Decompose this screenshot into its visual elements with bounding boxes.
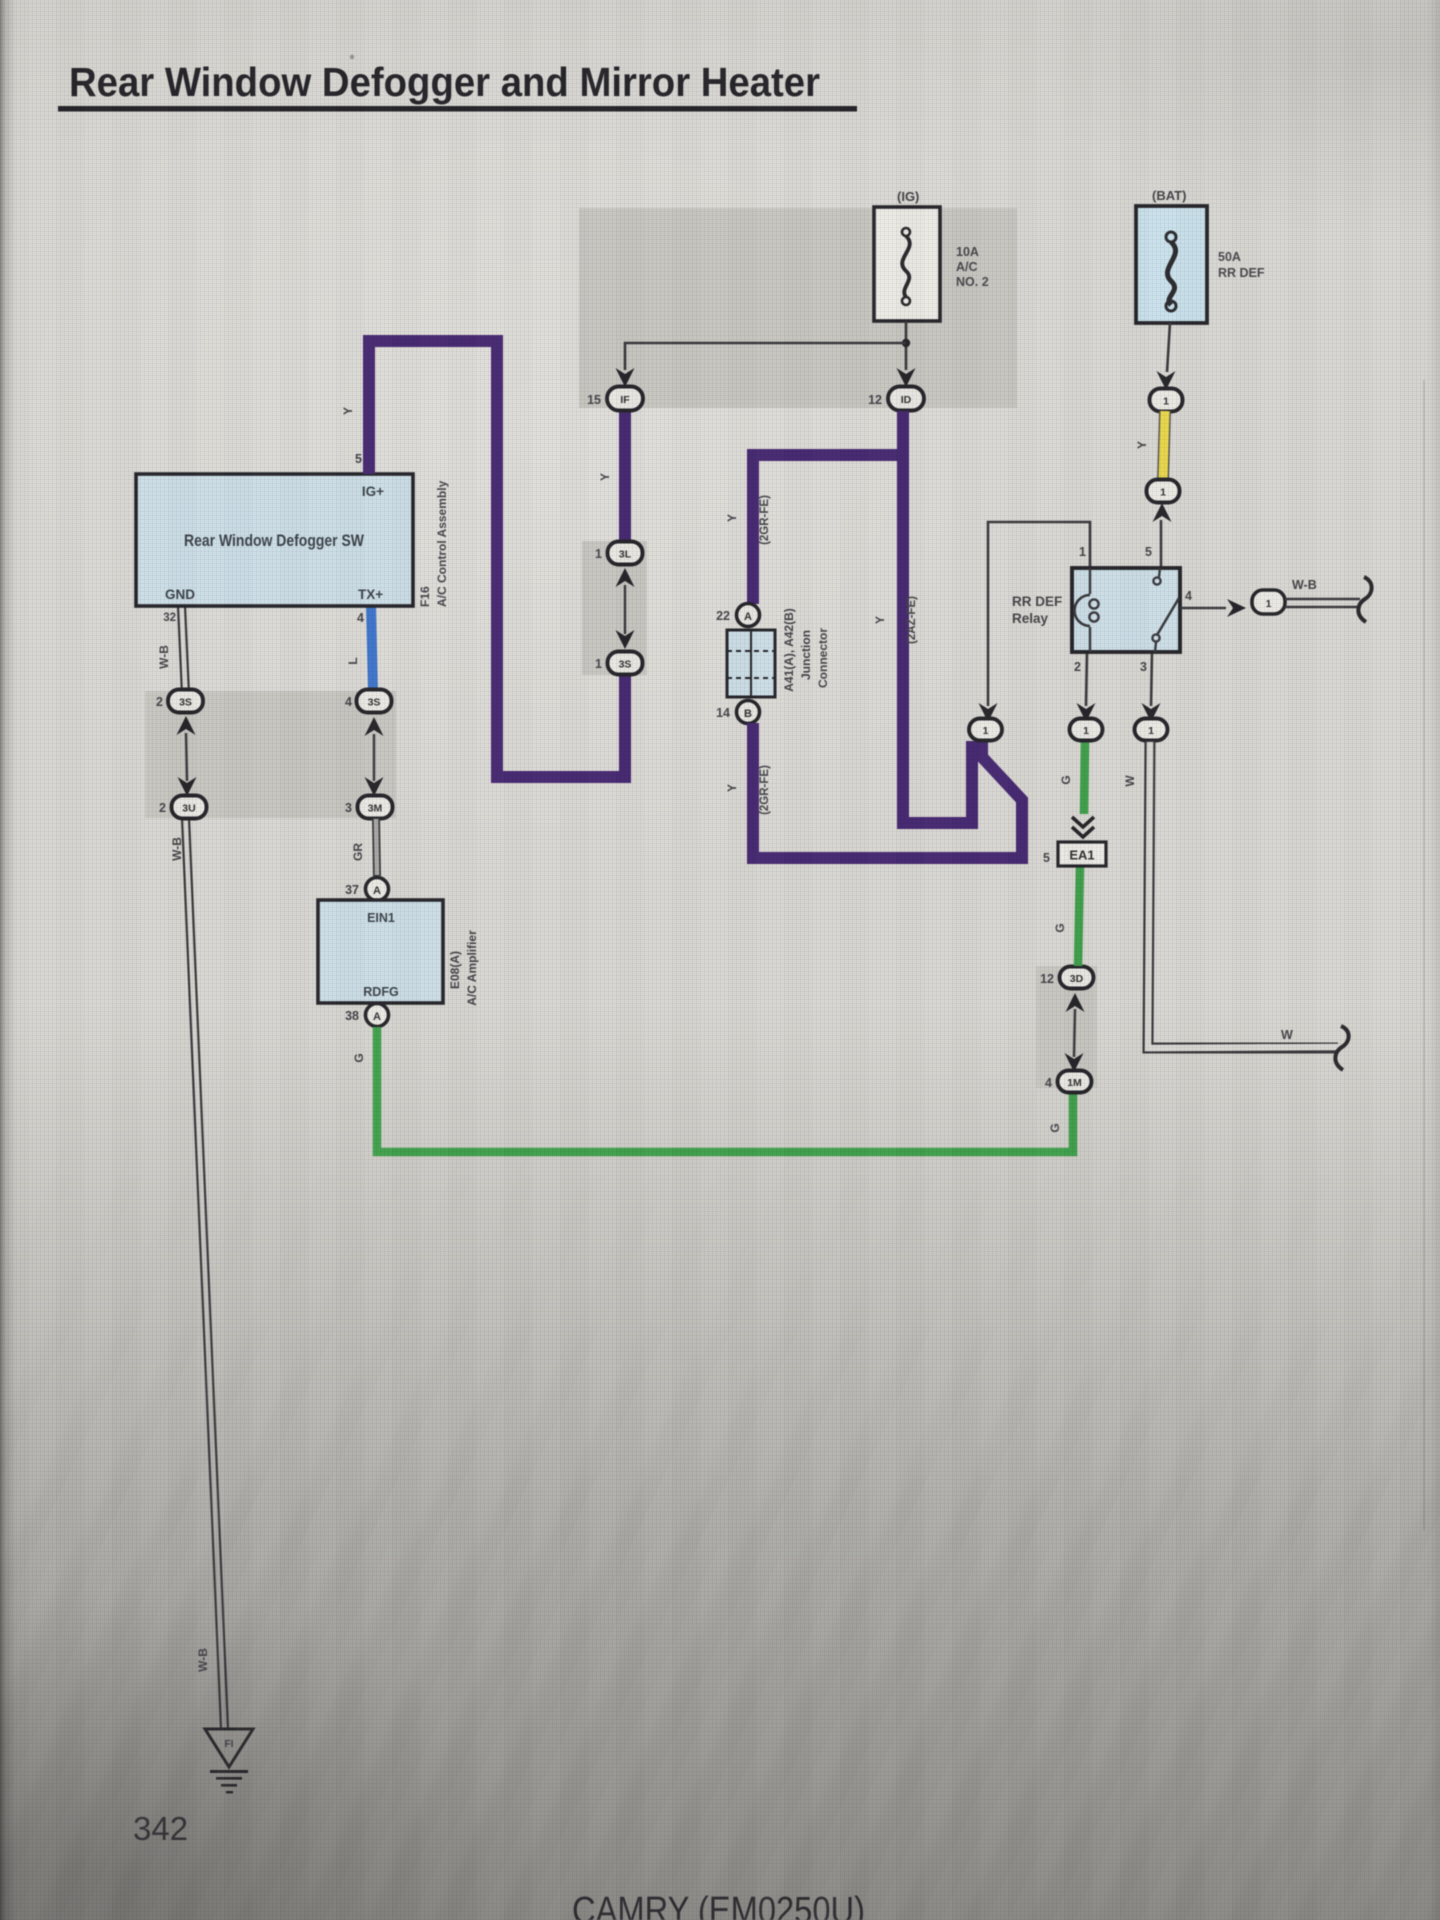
purple wire 15IF down to 3L [619,411,631,543]
svg-text:B: B [744,708,752,720]
connector 1 3S [608,652,643,675]
svg-text:Relay: Relay [1012,611,1049,626]
svg-text:1: 1 [983,725,989,737]
svg-text:Y: Y [1135,441,1149,449]
svg-text:W: W [1281,1028,1293,1042]
svg-text:(2AZ-FE): (2AZ-FE) [906,596,918,644]
svg-text:12: 12 [1040,972,1054,986]
svg-text:(2GR-FE): (2GR-FE) [759,765,771,815]
wire G green relay pin2 to EA1 [1084,741,1085,814]
svg-text:W: W [1123,775,1137,787]
wire W-B long run to ground [182,818,228,1729]
wire G green 3D up to EA1 [1078,866,1080,966]
wire GR [376,818,377,876]
svg-text:A: A [373,1011,381,1023]
svg-text:5: 5 [355,452,362,466]
svg-text:TX+: TX+ [358,587,383,602]
connector 22 A [737,604,760,627]
svg-text:A/C Control Assembly: A/C Control Assembly [435,480,449,607]
wire G green from amp to 1M [377,1027,1073,1152]
svg-text:(BAT): (BAT) [1152,188,1186,203]
svg-text:EA1: EA1 [1069,848,1094,863]
svg-text:(IG): (IG) [897,189,919,204]
svg-text:4: 4 [357,611,364,625]
connector 1 (pin4) [1252,590,1285,614]
connector 1 (relay pin3) [1142,703,1161,722]
shaded connector region 3D/1M [1036,966,1097,1088]
connector 15 IF [616,368,635,387]
svg-text:G: G [1059,775,1073,784]
shaded connector region left 3S/3U and 3S/3M [145,691,396,818]
svg-text:NO. 2: NO. 2 [956,275,989,289]
wire W-B from defogger SW GND down [178,606,189,694]
svg-text:10A: 10A [956,245,979,259]
purple wire from 14B to relay feed [753,723,1022,858]
connector 14 B [737,701,760,724]
off-page hook W [1335,1026,1348,1070]
svg-text:Rear Window Defogger SW: Rear Window Defogger SW [184,531,365,550]
connector 1 (relay pin2) [1077,703,1096,722]
svg-text:Y: Y [598,473,612,481]
connector 1 3L [616,568,635,587]
svg-text:3: 3 [345,801,352,815]
svg-text:1: 1 [595,547,602,561]
svg-text:Connector: Connector [816,628,830,688]
svg-text:A/C: A/C [956,260,978,274]
wire from fuse to branch [905,321,908,370]
svg-text:3L: 3L [619,549,632,561]
shaded harness region behind IG fuse [579,208,1017,408]
svg-text:IF: IF [620,394,630,406]
svg-text:22: 22 [716,609,730,623]
svg-text:Junction: Junction [799,630,813,680]
connector 4 1M [1058,1071,1092,1093]
svg-text:A/C Amplifier: A/C Amplifier [465,930,479,1006]
svg-text:1: 1 [1083,725,1089,737]
svg-text:GR: GR [351,843,365,861]
svg-text:14: 14 [716,706,730,720]
svg-text:342: 342 [133,1810,188,1847]
wire W-B to body ground [1285,598,1360,600]
svg-text:Y: Y [873,616,887,624]
connector 37 A [366,878,389,901]
splice EA1 [1043,842,1106,866]
junction connector A41/A42 [727,630,775,697]
svg-text:W-B: W-B [157,645,171,669]
svg-text:G: G [1048,1123,1062,1132]
svg-text:EIN1: EIN1 [367,911,395,925]
svg-text:A: A [744,611,752,623]
svg-text:1: 1 [1079,545,1086,559]
connector 38 A [366,1004,389,1027]
svg-text:Y: Y [341,407,355,415]
off-page hook W-B [1358,577,1371,622]
svg-text:4: 4 [1045,1076,1052,1090]
svg-text:Y: Y [725,784,739,792]
connector 4 3S [365,717,384,736]
wire Y yellow [1163,411,1165,481]
title [58,59,857,112]
svg-text:IG+: IG+ [362,484,384,499]
svg-text:W-B: W-B [170,837,184,861]
purple wire A/C control IG+ loop to 3S [369,341,625,777]
svg-text:3U: 3U [182,803,195,815]
svg-text:L: L [346,657,360,664]
svg-text:RR DEF: RR DEF [1218,266,1265,280]
svg-text:Rear Window Defogger and Mirro: Rear Window Defogger and Mirror Heater [69,59,820,105]
connector 12 3D [1060,967,1094,989]
wire L blue from TX+ [371,606,373,692]
svg-text:A: A [373,885,381,897]
connector 2 3U [172,796,207,819]
chevron to EA1 [1072,817,1094,837]
wire relay pin4 W-B [1180,607,1226,610]
svg-text:37: 37 [345,883,359,897]
svg-text:RR DEF: RR DEF [1012,594,1062,609]
svg-text:1: 1 [1163,396,1169,408]
svg-text:(2GR-FE): (2GR-FE) [759,495,771,545]
svg-text:G: G [352,1053,366,1062]
svg-text:3S: 3S [619,659,632,671]
svg-text:1: 1 [1160,487,1166,499]
svg-text:A41(A), A42(B): A41(A), A42(B) [782,608,796,692]
svg-text:FI: FI [225,1739,234,1750]
svg-text:4: 4 [345,695,352,709]
connector 2 3S [177,716,196,735]
svg-text:15: 15 [587,393,601,407]
connector 3 3M [358,796,393,819]
ground FI [205,1729,253,1793]
svg-text:3S: 3S [368,697,381,709]
A/C Amplifier box [318,900,443,1003]
svg-text:50A: 50A [1218,250,1241,264]
svg-text:E08(A): E08(A) [448,951,462,989]
Rear Window Defogger SW box [136,474,413,606]
purple wire branch to junction connector (2GR-FE) [753,455,897,604]
svg-text:38: 38 [345,1009,359,1023]
RR DEF relay box [1072,568,1180,652]
svg-text:G: G [1053,923,1067,932]
photo smudge [350,55,354,59]
connector 1 (relay feed) [979,703,998,722]
svg-text:12: 12 [868,393,882,407]
svg-text:3D: 3D [1070,973,1084,985]
svg-text:2: 2 [159,801,166,815]
svg-text:CAMRY (EM0250U): CAMRY (EM0250U) [572,1890,865,1920]
connector 12 ID [897,368,916,387]
svg-text:4: 4 [1185,589,1192,603]
faint page edge right [1423,380,1425,1530]
wire W from relay pin3 [1148,741,1338,1048]
svg-text:ID: ID [901,394,912,406]
svg-text:1: 1 [1148,725,1154,737]
svg-text:W-B: W-B [196,1648,210,1672]
connector 1 (bat) [1157,371,1176,390]
fuse 50A RR DEF [1136,206,1207,323]
connector 1 (to relay 5) [1147,480,1180,503]
svg-text:5: 5 [1145,545,1152,559]
svg-text:W-B: W-B [1292,578,1317,592]
svg-text:2: 2 [1074,660,1081,674]
svg-text:3S: 3S [179,697,192,709]
svg-text:32: 32 [163,612,176,624]
svg-text:1M: 1M [1067,1077,1082,1089]
svg-text:2: 2 [156,695,163,709]
wire fuse to connector [1167,323,1170,372]
svg-text:F16: F16 [418,586,432,607]
junction dot [902,339,910,347]
svg-text:Y: Y [725,514,739,522]
svg-text:3: 3 [1140,660,1147,674]
svg-text:5: 5 [1043,851,1050,865]
svg-text:RDFG: RDFG [363,985,398,999]
svg-text:3M: 3M [368,803,383,815]
shaded connector region 3L/3S [582,541,647,675]
fuse 10A A/C NO.2 [874,207,940,321]
svg-text:GND: GND [165,587,195,602]
wire relay pin1 loop [988,522,1090,706]
wire branch to 15IF [625,343,906,370]
svg-text:1: 1 [595,657,602,671]
svg-text:1: 1 [1266,598,1272,610]
purple wire 12ID main drop (2AZ-FE) [903,411,972,823]
